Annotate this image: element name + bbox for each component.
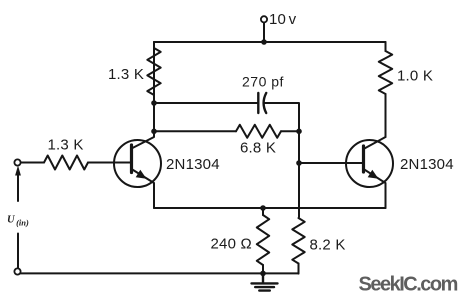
junction dot 6.8K / node B (296, 129, 302, 135)
wire capacitor line right (264, 103, 299, 131)
capacitor C1 270pf right curved plate (264, 93, 267, 113)
resistor R4 1.0K body (379, 51, 392, 94)
svg-text:2N1304: 2N1304 (166, 156, 220, 173)
terminal input top (14, 159, 20, 165)
transistor Q1 collector lead (132, 42, 155, 149)
wire input to 1.3K (21, 162, 44, 164)
svg-text:6.8 K: 6.8 K (240, 140, 276, 157)
svg-text:1.3 K: 1.3 K (48, 137, 84, 154)
wire 6.8K line left (154, 130, 236, 132)
svg-text:2N1304: 2N1304 (400, 156, 454, 173)
junction dot ground node (260, 271, 266, 277)
transistor Q2 base bar (362, 146, 365, 172)
svg-text:1.3 K: 1.3 K (108, 66, 144, 83)
junction dot cap line / R1 (151, 100, 157, 106)
svg-text:270 pf: 270 pf (242, 74, 284, 90)
resistor R6 8.2K body (292, 218, 304, 264)
wire node B vertical (Q2 base node) (298, 131, 300, 217)
resistor R5 240 ohm top lead (262, 208, 264, 215)
ground symbol (252, 274, 278, 291)
resistor R1 1.3K left collector: leads (153, 42, 155, 103)
wire capacitor line left (154, 102, 258, 104)
transistor Q1 base bar (130, 145, 133, 173)
junction dot 6.8K line / R1 (151, 129, 157, 135)
resistor R5 240 ohm body (257, 215, 269, 265)
resistor R3 6.8K body (236, 125, 281, 138)
junction dot supply rail (261, 39, 267, 45)
wire 1.3K to Q1 base (88, 162, 132, 164)
terminal input bottom (14, 268, 20, 274)
svg-text:SeekIC.com: SeekIC.com (359, 274, 458, 296)
wire supply stub (263, 23, 265, 43)
terminal 10v supply (261, 16, 267, 22)
resistor R1 1.3K body (147, 48, 160, 95)
transistor Q1 emitter lead (132, 169, 155, 208)
input polarity arrow shaft (17, 170, 19, 201)
transistor Q2 circle (346, 140, 393, 187)
resistor R5 240 ohm bottom lead (262, 265, 264, 274)
transistor Q2 emitter arrowhead (368, 170, 379, 179)
resistor R2 1.3K input body (44, 156, 88, 170)
svg-text:10v: 10v (269, 11, 297, 28)
wire bottom ground line (20, 272, 298, 274)
svg-text:1.0 K: 1.0 K (397, 68, 433, 85)
svg-text:240 Ω: 240 Ω (211, 236, 252, 253)
wire 6.8K line right (281, 130, 299, 132)
capacitor C1 270pf left plate (257, 93, 259, 113)
resistor R6 8.2K bottom lead (298, 264, 300, 274)
wire input lower vertical (17, 234, 19, 269)
wire top supply rail (154, 41, 386, 43)
wire emitter rail (154, 207, 386, 209)
svg-text:U(in): U(in) (7, 215, 29, 228)
input polarity arrowhead (15, 166, 21, 176)
transistor Q2 emitter lead (364, 169, 386, 208)
resistor R4 1.0K right collector: leads (385, 42, 387, 137)
transistor Q1 circle (114, 140, 161, 187)
junction dot Q2 base / node B (296, 160, 302, 166)
transistor Q1 emitter arrowhead (136, 170, 147, 179)
svg-text:8.2 K: 8.2 K (310, 237, 346, 254)
wire Q2 base lead (299, 162, 364, 164)
transistor Q2 collector lead (364, 137, 386, 149)
junction dot emitter rail / 240 ohm (260, 205, 266, 211)
